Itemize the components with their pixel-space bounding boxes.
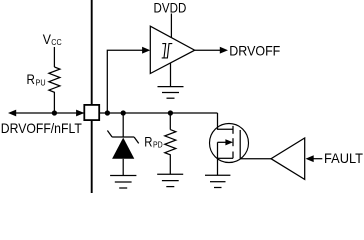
svg-text:DRVOFF: DRVOFF xyxy=(229,43,280,58)
svg-text:CC: CC xyxy=(51,38,62,47)
MOSFET body arrow xyxy=(218,141,228,143)
node junction dot at zener xyxy=(121,110,126,115)
arrowhead into FAULT buffer xyxy=(306,155,314,162)
wire VCC to RPU xyxy=(53,47,55,67)
MOSFET source stub xyxy=(218,157,234,159)
wire schmitt output xyxy=(195,49,221,51)
pin square xyxy=(84,105,99,120)
ground below schmitt buffer xyxy=(158,87,184,99)
svg-text:R: R xyxy=(27,72,35,87)
wire bus right segment xyxy=(99,112,217,114)
arrowhead right into pin xyxy=(76,110,84,117)
wire DVDD supply xyxy=(170,14,172,38)
wire MOSFET source to ground xyxy=(217,158,219,175)
svg-text:FAULT: FAULT xyxy=(324,151,364,166)
wire riser to schmitt input xyxy=(107,50,142,113)
arrowhead to DRVOFF xyxy=(220,47,228,54)
resistor RPD xyxy=(165,130,176,175)
node junction dot at buffer riser xyxy=(105,110,110,115)
wire bus to RPD xyxy=(169,113,171,130)
schmitt hysteresis glyph xyxy=(162,44,173,58)
svg-text:DVDD: DVDD xyxy=(154,1,187,16)
svg-text:V: V xyxy=(43,32,52,47)
arrowhead left (bidirectional bus) xyxy=(8,110,16,117)
svg-text:PU: PU xyxy=(36,78,46,87)
svg-text:PD: PD xyxy=(153,140,163,149)
resistor RPU xyxy=(49,67,60,113)
svg-text:DRVOFF/nFLT: DRVOFF/nFLT xyxy=(1,121,83,136)
wire FAULT input xyxy=(313,158,322,160)
wire DRVOFF/nFLT bus left segment xyxy=(14,112,85,114)
wire bus to MOSFET drain xyxy=(218,113,234,129)
ground below zener xyxy=(110,176,136,189)
wire schmitt to ground xyxy=(170,63,172,87)
ground below MOSFET xyxy=(205,175,230,187)
svg-text:R: R xyxy=(144,134,152,149)
op-amp U1 schmitt buffer xyxy=(150,26,194,73)
device boundary line xyxy=(91,0,93,193)
MOSFET gate plate xyxy=(239,130,241,159)
MOSFET channel segment body xyxy=(232,138,234,146)
node junction dot at RPU xyxy=(52,110,57,115)
MOSFET channel segment source xyxy=(232,152,234,159)
node junction dot at RPD xyxy=(168,110,173,115)
MOSFET body-source tie bar xyxy=(217,142,219,158)
wire bus to zener cathode xyxy=(122,113,124,137)
wire zener anode to ground xyxy=(122,159,124,176)
arrowhead into schmitt buffer xyxy=(142,47,150,54)
MOSFET channel segment drain xyxy=(232,126,234,134)
op-amp U2 FAULT buffer xyxy=(271,138,305,179)
transistor Q1 MOSFET body circle xyxy=(210,124,249,163)
wire gate to FAULT buffer output xyxy=(240,158,271,160)
zener diode D1 xyxy=(107,131,138,159)
ground below RPD xyxy=(157,174,183,186)
